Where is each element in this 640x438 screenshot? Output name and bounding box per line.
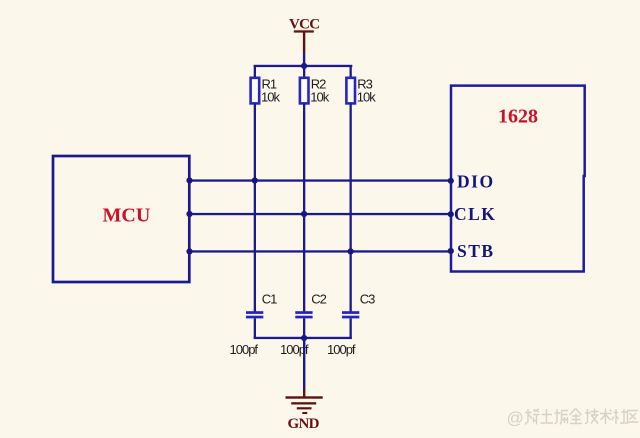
wire: CLK bus <box>189 213 451 215</box>
svg-text:CLK: CLK <box>454 204 496 224</box>
node: MCU STB pin dot <box>186 248 192 254</box>
node: MCU CLK pin dot <box>186 211 192 217</box>
node: 1628 CLK pin dot <box>448 211 454 217</box>
svg-text:C1: C1 <box>262 292 277 307</box>
capacitor C3 <box>342 311 359 318</box>
VCC stem wire (navy lower part) <box>303 53 305 66</box>
node: 1628 STB pin dot <box>448 248 454 254</box>
capacitor C2 <box>295 311 312 318</box>
svg-text:10k: 10k <box>261 90 280 105</box>
ground symbol <box>286 396 323 414</box>
wire: R2/C2 vertical column <box>303 103 305 312</box>
node: STB/R3 junction dot <box>348 248 354 254</box>
掘 <box>555 409 569 425</box>
svg-text:100pf: 100pf <box>230 342 259 357</box>
svg-text:@: @ <box>507 409 524 428</box>
wire: ground stem (navy) <box>303 338 305 388</box>
术 <box>600 409 612 425</box>
区 <box>628 411 639 423</box>
稀 <box>525 409 540 425</box>
wire: C2 bottom leg <box>303 318 305 339</box>
resistor R2 <box>300 78 309 104</box>
VCC stem wire (maroon upper part) <box>303 32 305 54</box>
金 <box>570 409 583 424</box>
svg-text:10k: 10k <box>310 90 329 105</box>
wire: C1 bottom leg <box>254 318 256 339</box>
svg-text:10k: 10k <box>357 90 376 105</box>
MCU box <box>53 156 189 282</box>
wire: R2 top leg <box>303 65 305 78</box>
svg-text:VCC: VCC <box>289 17 319 33</box>
wire: R3/C3 vertical column <box>350 103 352 312</box>
wire: R3 top leg <box>350 65 352 78</box>
svg-text:GND: GND <box>288 416 320 432</box>
svg-text:DIO: DIO <box>457 172 495 192</box>
svg-text:MCU: MCU <box>103 204 151 226</box>
wire: DIO bus <box>189 179 451 181</box>
resistor R3 <box>346 78 355 104</box>
svg-text:100pf: 100pf <box>327 342 356 357</box>
土 <box>541 409 554 423</box>
VCC power bar <box>294 30 314 32</box>
wire: R1/C1 vertical column <box>254 103 256 312</box>
svg-text:C3: C3 <box>360 292 375 307</box>
node: MCU DIO pin dot <box>186 177 192 183</box>
node: ground junction dot <box>301 335 307 341</box>
node: VCC junction dot <box>301 63 307 69</box>
wire: C3 bottom leg <box>350 318 352 339</box>
node: DIO/R1 junction dot <box>252 177 258 183</box>
wire: ground stem (maroon tail) <box>303 388 305 397</box>
技 <box>585 409 599 425</box>
svg-text:1628: 1628 <box>498 105 538 127</box>
wire: VCC horizontal bus <box>254 65 353 67</box>
社 <box>612 409 629 424</box>
capacitor C1 <box>246 311 263 318</box>
resistor R1 <box>251 78 260 104</box>
IC box 1628 <box>451 86 585 272</box>
node: CLK/R2 junction dot <box>301 211 307 217</box>
svg-text:STB: STB <box>457 241 495 261</box>
watermark @稀土掘金技术社区 <box>507 409 639 428</box>
svg-text:C2: C2 <box>311 292 326 307</box>
wire: ground bus <box>254 337 352 339</box>
node: 1628 DIO pin dot <box>448 178 454 184</box>
wire: R1 top leg <box>254 65 256 78</box>
wire: STB bus <box>189 250 451 252</box>
